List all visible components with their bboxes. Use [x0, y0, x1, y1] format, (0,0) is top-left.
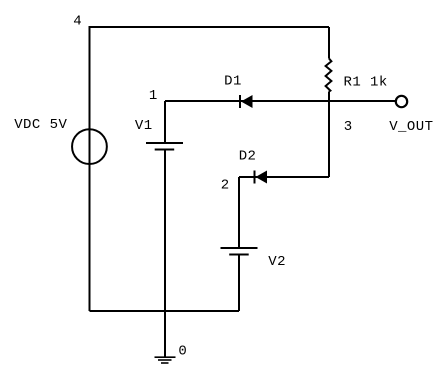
svg-text:VDC 5V: VDC 5V	[14, 117, 67, 133]
svg-text:3: 3	[344, 119, 353, 135]
svg-text:4: 4	[73, 13, 82, 29]
svg-text:R1 1k: R1 1k	[344, 75, 388, 91]
svg-text:V_OUT: V_OUT	[389, 119, 433, 135]
svg-text:2: 2	[221, 177, 230, 193]
svg-text:D1: D1	[224, 74, 242, 90]
svg-text:1: 1	[149, 88, 158, 104]
svg-text:D2: D2	[239, 149, 257, 165]
svg-text:V2: V2	[268, 254, 286, 270]
svg-text:V1: V1	[135, 118, 153, 134]
svg-text:0: 0	[178, 343, 187, 359]
